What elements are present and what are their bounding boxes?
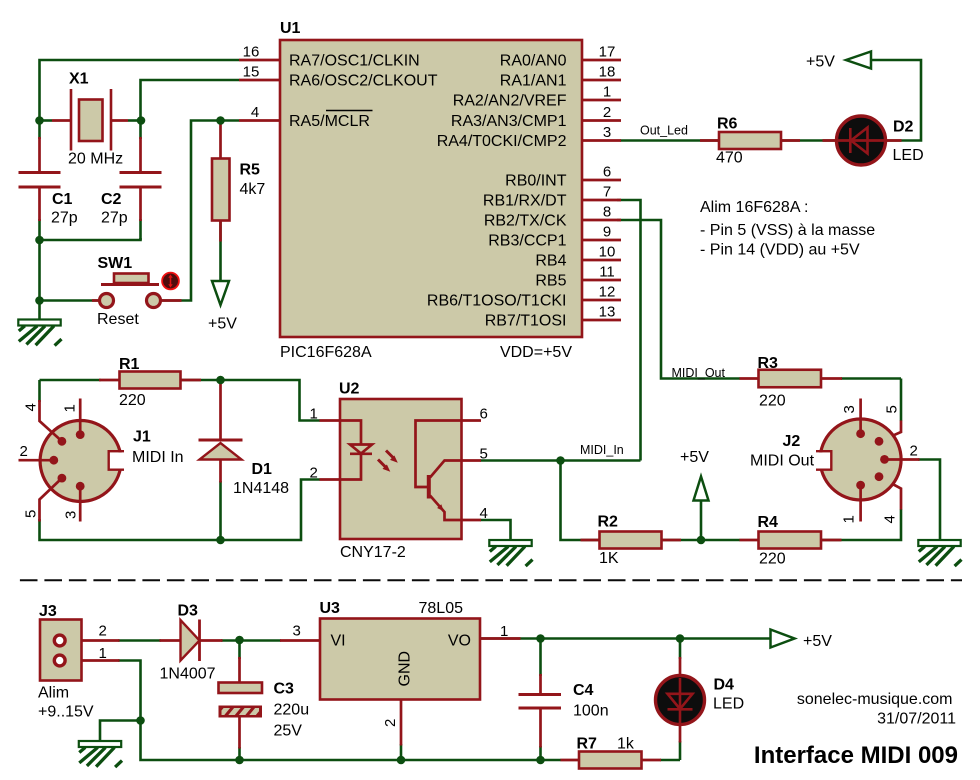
svg-text:MIDI_In: MIDI_In bbox=[580, 443, 624, 457]
svg-text:+5V: +5V bbox=[803, 633, 832, 650]
svg-text:RA0/AN0: RA0/AN0 bbox=[500, 53, 567, 70]
svg-text:27p: 27p bbox=[101, 210, 128, 227]
svg-text:RB7/T1OSI: RB7/T1OSI bbox=[485, 313, 567, 330]
svg-text:MIDI In: MIDI In bbox=[132, 449, 184, 466]
svg-text:PIC16F628A: PIC16F628A bbox=[280, 344, 372, 361]
svg-text:RB0/INT: RB0/INT bbox=[505, 173, 567, 190]
svg-text:C4: C4 bbox=[573, 682, 594, 699]
svg-text:220: 220 bbox=[759, 551, 786, 568]
svg-text:1: 1 bbox=[310, 406, 318, 423]
svg-text:1N4007: 1N4007 bbox=[160, 666, 216, 683]
svg-text:RA3/AN3/CMP1: RA3/AN3/CMP1 bbox=[451, 113, 567, 130]
svg-text:D3: D3 bbox=[178, 603, 199, 620]
svg-text:220u: 220u bbox=[274, 702, 310, 719]
svg-text:U1: U1 bbox=[280, 20, 301, 37]
svg-text:1: 1 bbox=[603, 84, 611, 101]
svg-text:RB5: RB5 bbox=[535, 273, 566, 290]
svg-text:+5V: +5V bbox=[680, 449, 709, 466]
svg-text:220: 220 bbox=[759, 393, 786, 410]
svg-text:Alim 16F628A :: Alim 16F628A : bbox=[700, 199, 809, 216]
svg-text:Interface MIDI 009: Interface MIDI 009 bbox=[754, 742, 958, 769]
svg-text:18: 18 bbox=[599, 64, 616, 81]
svg-text:- Pin 5 (VSS) à la masse: - Pin 5 (VSS) à la masse bbox=[700, 222, 875, 239]
svg-text:MIDI Out: MIDI Out bbox=[750, 453, 815, 470]
svg-text:31/07/2011: 31/07/2011 bbox=[877, 711, 956, 728]
svg-text:220: 220 bbox=[119, 392, 146, 409]
svg-text:R3: R3 bbox=[758, 355, 779, 372]
svg-text:2: 2 bbox=[382, 719, 399, 727]
svg-text:RA4/T0CKI/CMP2: RA4/T0CKI/CMP2 bbox=[437, 133, 567, 150]
svg-text:VDD=+5V: VDD=+5V bbox=[500, 344, 572, 361]
svg-text:2: 2 bbox=[310, 465, 318, 482]
svg-text:- Pin 14 (VDD) au +5V: - Pin 14 (VDD) au +5V bbox=[700, 242, 860, 259]
svg-text:D4: D4 bbox=[714, 677, 735, 694]
svg-text:3: 3 bbox=[603, 124, 611, 141]
svg-text:4k7: 4k7 bbox=[240, 181, 266, 198]
svg-text:4: 4 bbox=[882, 515, 899, 523]
svg-text:1: 1 bbox=[841, 515, 858, 523]
svg-text:SW1: SW1 bbox=[98, 255, 133, 272]
svg-text:Out_Led: Out_Led bbox=[640, 124, 688, 138]
svg-text:2: 2 bbox=[603, 104, 611, 121]
svg-text:1k: 1k bbox=[617, 736, 635, 753]
svg-text:D1: D1 bbox=[252, 461, 273, 478]
svg-text:5: 5 bbox=[480, 446, 488, 463]
svg-text:3: 3 bbox=[841, 405, 858, 413]
svg-text:RA6/OSC2/CLKOUT: RA6/OSC2/CLKOUT bbox=[289, 73, 438, 90]
svg-text:3: 3 bbox=[63, 511, 80, 519]
svg-text:J1: J1 bbox=[133, 429, 151, 446]
svg-text:25V: 25V bbox=[274, 723, 303, 740]
svg-text:1K: 1K bbox=[599, 550, 619, 567]
svg-text:RA2/AN2/VREF: RA2/AN2/VREF bbox=[453, 93, 567, 110]
svg-text:8: 8 bbox=[603, 204, 611, 221]
svg-text:7: 7 bbox=[603, 184, 611, 201]
svg-text:MIDI_Out: MIDI_Out bbox=[672, 366, 726, 380]
svg-text:RA1/AN1: RA1/AN1 bbox=[500, 73, 567, 90]
svg-text:5: 5 bbox=[884, 405, 901, 413]
svg-text:+9..15V: +9..15V bbox=[38, 704, 94, 721]
svg-text:RB2/TX/CK: RB2/TX/CK bbox=[484, 213, 567, 230]
svg-text:+5V: +5V bbox=[208, 316, 237, 333]
svg-text:C3: C3 bbox=[274, 681, 295, 698]
svg-text:C1: C1 bbox=[52, 191, 73, 208]
svg-text:2: 2 bbox=[910, 443, 918, 460]
svg-text:R5: R5 bbox=[240, 162, 261, 179]
svg-text:78L05: 78L05 bbox=[419, 600, 464, 617]
svg-text:R2: R2 bbox=[598, 514, 619, 531]
svg-text:J3: J3 bbox=[39, 603, 57, 620]
svg-text:D2: D2 bbox=[893, 119, 914, 136]
svg-text:4: 4 bbox=[251, 104, 259, 121]
svg-text:RB6/T1OSO/T1CKI: RB6/T1OSO/T1CKI bbox=[427, 293, 567, 310]
svg-text:2: 2 bbox=[99, 623, 107, 640]
svg-text:9: 9 bbox=[603, 224, 611, 241]
svg-text:RB4: RB4 bbox=[535, 253, 566, 270]
svg-text:12: 12 bbox=[599, 284, 616, 301]
svg-text:11: 11 bbox=[599, 264, 615, 281]
svg-text:15: 15 bbox=[243, 64, 260, 81]
svg-text:R1: R1 bbox=[119, 356, 140, 373]
svg-text:+5V: +5V bbox=[806, 54, 835, 71]
svg-text:RB3/CCP1: RB3/CCP1 bbox=[488, 233, 566, 250]
svg-text:U3: U3 bbox=[320, 600, 341, 617]
svg-text:RA5/MCLR: RA5/MCLR bbox=[289, 113, 370, 130]
svg-text:1: 1 bbox=[62, 404, 79, 412]
svg-text:17: 17 bbox=[599, 44, 616, 61]
svg-text:6: 6 bbox=[603, 164, 611, 181]
svg-text:1: 1 bbox=[500, 623, 508, 640]
svg-text:Reset: Reset bbox=[97, 311, 139, 328]
svg-text:VO: VO bbox=[448, 633, 471, 650]
svg-text:100n: 100n bbox=[573, 703, 609, 720]
svg-text:LED: LED bbox=[713, 696, 744, 713]
svg-text:5: 5 bbox=[23, 510, 40, 518]
svg-text:13: 13 bbox=[599, 304, 616, 321]
svg-text:RB1/RX/DT: RB1/RX/DT bbox=[483, 193, 567, 210]
svg-text:470: 470 bbox=[716, 150, 743, 167]
svg-text:R6: R6 bbox=[717, 116, 738, 133]
svg-text:R4: R4 bbox=[758, 514, 779, 531]
svg-text:2: 2 bbox=[20, 443, 28, 460]
svg-text:GND: GND bbox=[397, 651, 414, 687]
svg-text:27p: 27p bbox=[51, 210, 78, 227]
svg-text:sonelec-musique.com: sonelec-musique.com bbox=[797, 691, 953, 708]
svg-text:6: 6 bbox=[480, 406, 488, 423]
svg-text:R7: R7 bbox=[577, 736, 598, 753]
svg-text:Alim: Alim bbox=[38, 685, 69, 702]
svg-text:1N4148: 1N4148 bbox=[233, 480, 289, 497]
svg-text:RA7/OSC1/CLKIN: RA7/OSC1/CLKIN bbox=[289, 53, 420, 70]
svg-text:20 MHz: 20 MHz bbox=[68, 151, 123, 168]
svg-text:4: 4 bbox=[23, 403, 40, 411]
svg-text:J2: J2 bbox=[783, 433, 801, 450]
svg-text:16: 16 bbox=[243, 44, 260, 61]
svg-text:4: 4 bbox=[480, 505, 488, 522]
svg-text:LED: LED bbox=[893, 147, 924, 164]
svg-text:1: 1 bbox=[99, 645, 107, 662]
svg-text:3: 3 bbox=[293, 623, 301, 640]
svg-text:C2: C2 bbox=[101, 191, 122, 208]
svg-text:U2: U2 bbox=[339, 381, 360, 398]
svg-text:VI: VI bbox=[331, 633, 346, 650]
svg-text:CNY17-2: CNY17-2 bbox=[340, 544, 406, 561]
svg-text:X1: X1 bbox=[69, 71, 89, 88]
svg-text:10: 10 bbox=[599, 244, 616, 261]
